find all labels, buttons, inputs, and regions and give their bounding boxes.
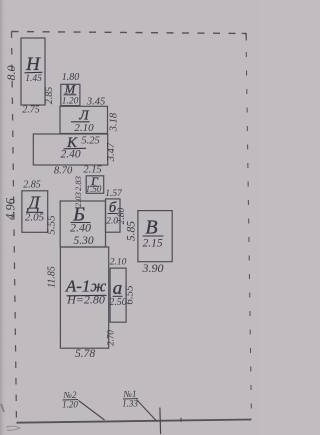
- gate no1 leader line: [137, 400, 158, 422]
- scan noise overlay: [0, 0, 1, 1]
- parcel boundary bottom (solid): [17, 420, 252, 423]
- boundary corner top-right: [242, 33, 247, 40]
- building A-1zh outline: [60, 247, 108, 348]
- building K outline: [33, 134, 107, 165]
- underline K: [64, 147, 87, 150]
- underline B: [71, 222, 91, 224]
- gate no1 underline: [123, 398, 138, 400]
- parcel boundary right (dashed): [246, 34, 252, 420]
- underline D: [26, 211, 43, 213]
- gate no2 underline: [63, 399, 79, 401]
- tick on boundary: [180, 418, 182, 422]
- underline b-small: [108, 213, 118, 215]
- building G outline: [86, 176, 104, 194]
- building b-small outline: [106, 199, 121, 232]
- building M outline: [61, 84, 80, 105]
- building B outline: [60, 201, 105, 247]
- building L outline: [60, 106, 108, 133]
- building D outline: [22, 191, 48, 233]
- underline A-1zh: [67, 294, 107, 297]
- underline L: [71, 121, 90, 123]
- building N outline: [21, 38, 45, 105]
- underline M: [64, 94, 77, 96]
- gate no2 leader line: [79, 401, 105, 421]
- underline V: [143, 235, 164, 237]
- underline G: [90, 185, 100, 187]
- parcel boundary top (dashed): [12, 32, 247, 34]
- smudge left edge: [1, 404, 4, 412]
- underline N: [25, 71, 43, 74]
- underline a-small: [113, 295, 123, 297]
- survey cross mark: [159, 408, 162, 435]
- porch a outline: [110, 268, 126, 322]
- parcel boundary left (dashed): [12, 32, 17, 423]
- smudge bottom-left: [6, 426, 20, 430]
- building V outline: [138, 211, 172, 262]
